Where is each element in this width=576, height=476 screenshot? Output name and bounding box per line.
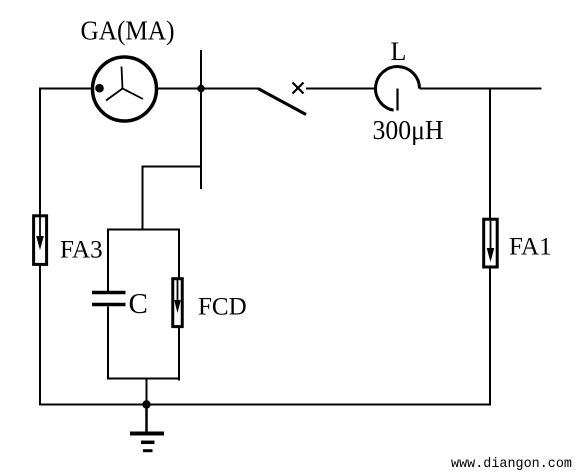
inductor L loop <box>376 67 420 111</box>
node ground junction dot <box>142 400 150 408</box>
svg-text:C: C <box>129 288 148 320</box>
wire loop right lower <box>178 327 180 381</box>
switch contact x mark <box>293 83 304 94</box>
ground <box>130 434 164 451</box>
wire right vertical <box>489 89 491 406</box>
wire loop bottom <box>107 378 180 380</box>
ammeter Y symbol <box>106 67 143 101</box>
node junction dot top <box>197 85 205 93</box>
wire bottom horizontal <box>39 404 490 406</box>
wire mid horizontal <box>143 166 202 168</box>
wire junction vertical <box>200 50 202 189</box>
switch blade <box>258 89 306 115</box>
wire ammeter to switch <box>157 88 259 90</box>
wire loop right upper <box>178 229 180 279</box>
ammeter GA(MA) circle <box>93 57 157 121</box>
ground stem <box>145 405 148 433</box>
wire switch to inductor <box>306 88 376 90</box>
svg-text:FA1: FA1 <box>509 234 552 261</box>
wire inductor to top-right <box>420 88 542 90</box>
wire top-left horizontal <box>39 88 93 90</box>
wire mid vertical <box>142 166 144 231</box>
arrester FA1 <box>484 219 498 267</box>
arrester FA3 <box>34 215 47 264</box>
svg-text:FCD: FCD <box>198 294 247 321</box>
wire loop top <box>107 229 180 231</box>
svg-text:GA(MA): GA(MA) <box>81 16 175 46</box>
capacitor C plates <box>92 293 126 305</box>
svg-text:L: L <box>391 37 407 66</box>
protector FCD <box>173 278 183 327</box>
svg-text:FA3: FA3 <box>60 237 103 264</box>
inductor inner radius line <box>396 89 398 111</box>
wire loop left lower <box>107 307 109 380</box>
wire loop left upper <box>107 229 109 292</box>
wire bottom center vertical <box>146 379 148 405</box>
ammeter terminal dot <box>95 84 104 93</box>
wire left vertical <box>39 88 41 406</box>
svg-text:www.diangon.com: www.diangon.com <box>451 456 572 472</box>
svg-text:300μH: 300μH <box>373 115 444 145</box>
